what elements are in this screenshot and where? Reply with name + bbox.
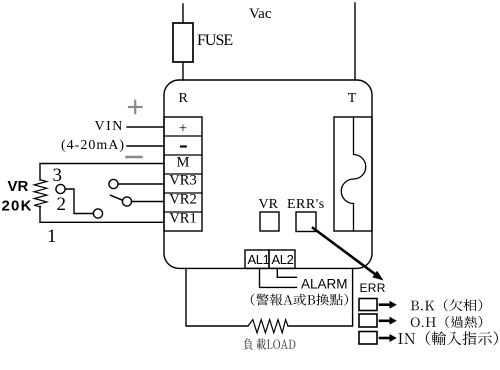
fuse F1 body xyxy=(173,23,193,62)
terminal divider 3 xyxy=(164,173,202,175)
svg-text:VR2: VR2 xyxy=(169,192,196,208)
svg-text:Vac: Vac xyxy=(249,6,272,22)
wire: AC line T (top right vertical) xyxy=(354,3,356,80)
svg-text:1: 1 xyxy=(47,226,57,247)
arrow to IN xyxy=(380,334,397,342)
heatsink/relay block outline xyxy=(334,117,372,231)
svg-text:T: T xyxy=(348,91,357,106)
pot wiper contact circle (pin 2) xyxy=(56,184,65,193)
wire: load loop left xyxy=(186,268,248,326)
terminal divider 5 xyxy=(164,211,202,213)
terminal divider 4 xyxy=(164,192,202,194)
svg-text:20K: 20K xyxy=(2,197,33,214)
svg-text:VR: VR xyxy=(259,197,279,212)
svg-text:M: M xyxy=(177,155,190,171)
svg-text:ERR's: ERR's xyxy=(287,197,325,212)
ERR indicator square IN xyxy=(359,332,377,345)
svg-text:3: 3 xyxy=(53,165,63,186)
wire: fuse to R terminal xyxy=(182,62,184,80)
switch contact circle (VR3 side) xyxy=(109,179,118,188)
VR trimmer square xyxy=(260,212,279,231)
switch blade xyxy=(111,195,123,200)
arrow: ERR's square to ERR legend xyxy=(313,228,384,281)
wire: AC line R (top left vertical) xyxy=(182,4,184,23)
arrow to O.H xyxy=(380,317,397,325)
potentiometer VR 20K zigzag body xyxy=(34,180,47,207)
wire: wiper to switch pole xyxy=(65,189,93,214)
ERR indicator square B.K xyxy=(359,299,377,311)
label (alarm A or B changeover) CJK xyxy=(251,294,348,306)
wire: VIN to + terminal xyxy=(127,126,164,128)
terminal label - (drawn dash) xyxy=(181,145,186,147)
module case U1 (rounded rectangle) xyxy=(164,80,372,268)
wire: 4-20mA to - terminal xyxy=(127,145,164,147)
wire: load loop right xyxy=(288,268,353,326)
svg-text:+: + xyxy=(179,121,187,137)
svg-text:R: R xyxy=(179,91,189,106)
terminal strip outline xyxy=(164,117,202,231)
terminal divider 2 xyxy=(164,154,202,156)
wire: contact to VR3 terminal xyxy=(118,183,164,185)
switch contact circle (VR2 side) xyxy=(122,197,131,206)
svg-text:VR: VR xyxy=(8,178,29,195)
svg-text:VR1: VR1 xyxy=(169,211,196,227)
svg-text:AL1: AL1 xyxy=(248,252,270,267)
ERR indicator square O.H xyxy=(359,314,377,327)
svg-text:ERR: ERR xyxy=(360,281,386,295)
svg-text:AL2: AL2 xyxy=(272,252,294,267)
terminal AL2 box xyxy=(269,250,295,268)
heatsink wavy divider xyxy=(341,117,365,231)
wire: pot pin1 to VR1 terminal xyxy=(40,207,164,223)
svg-text:(4-20mA): (4-20mA) xyxy=(61,138,125,153)
wire: AL1 to alarm callout xyxy=(260,268,297,287)
arrow to B.K xyxy=(380,301,397,309)
svg-text:FUSE: FUSE xyxy=(197,32,232,49)
wire: pot pin3 to M terminal xyxy=(40,164,164,181)
load resistor zigzag xyxy=(248,320,288,333)
polarity mark - (gray) xyxy=(127,156,142,159)
terminal AL1 box xyxy=(245,250,269,268)
label B.K (phase loss) xyxy=(411,299,482,311)
wire: AL2 to alarm callout xyxy=(277,268,296,277)
svg-text:ALARM: ALARM xyxy=(301,277,348,292)
label IN (input indicator) xyxy=(398,331,498,345)
polarity mark + (gray) xyxy=(129,101,142,113)
switch pole contact circle xyxy=(93,209,102,218)
label O.H (overheat) xyxy=(411,316,482,328)
svg-text:2: 2 xyxy=(57,194,67,215)
svg-text:VR3: VR3 xyxy=(169,173,196,189)
terminal divider 1 xyxy=(164,135,202,137)
svg-text:VIN: VIN xyxy=(95,119,124,134)
ERR's indicator square xyxy=(296,212,316,232)
label load (CJK + LOAD) xyxy=(244,338,296,350)
wire: contact to VR2 terminal xyxy=(132,201,164,203)
